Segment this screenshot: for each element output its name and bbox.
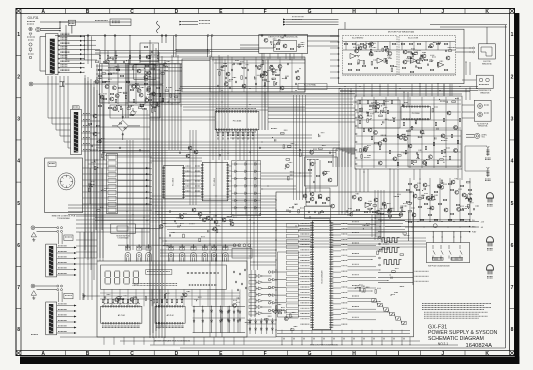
motor sub-box KD-2 REWIND — [343, 36, 398, 76]
connector CN3 hatched core — [74, 112, 78, 153]
syscon bottom pin circles — [283, 338, 284, 339]
motor pcb wires — [343, 41, 456, 43]
svg-text:1: 1 — [17, 32, 20, 38]
DETECTOR PCB box — [259, 35, 308, 54]
power unit sub-box B — [129, 85, 163, 102]
power unit sub-box A — [129, 65, 163, 85]
transformer secondary taps — [58, 35, 84, 37]
OSC OUT row 3 — [378, 281, 413, 283]
power unit outer box — [100, 64, 180, 103]
svg-text:G: G — [308, 351, 312, 357]
junction rings mid band — [169, 211, 171, 213]
servo component field — [452, 101, 456, 103]
servo bus line 2 — [340, 91, 470, 93]
resistor row under U10 — [217, 132, 219, 136]
MODE SW PCB box — [111, 224, 136, 234]
thermal fuse box — [68, 20, 75, 25]
display inner label box — [146, 270, 172, 275]
horizontal bus band y237-247 — [160, 237, 426, 239]
REVERSE PCB box — [476, 75, 493, 88]
svg-text:D: D — [175, 351, 179, 357]
syscon mute cluster — [365, 202, 371, 207]
syscon exit rows extra — [348, 227, 373, 229]
wires remote pcb — [83, 167, 108, 169]
svg-text:E: E — [219, 9, 223, 15]
plunger coil L2 — [486, 167, 489, 177]
syscon left edge pin dots — [275, 199, 276, 200]
servo wires — [356, 99, 461, 101]
meter IC passive rows — [102, 299, 104, 303]
regulator component field — [132, 85, 136, 89]
notes block 1 strong — [422, 303, 491, 305]
clock waveform trace 3 — [384, 260, 402, 265]
long horizontal wires upper — [150, 93, 355, 95]
left entry bundle to servo — [332, 148, 334, 167]
REMOTE CONTROL PCB box — [45, 158, 83, 213]
wires between U11 U12 — [184, 167, 203, 169]
transistor near SW PCB — [433, 224, 437, 228]
svg-text:DETECTOR PCB T2030905C5A: DETECTOR PCB T2030905C5A — [268, 36, 298, 39]
wires into SW PCB — [378, 219, 470, 221]
right margin long vertical — [505, 25, 507, 348]
wires detector — [240, 44, 259, 46]
svg-text:1640824A: 1640824A — [466, 343, 493, 349]
corner registration box bottom-left — [16, 351, 21, 356]
ground symbol A — [31, 232, 36, 237]
meter IC2 — [155, 306, 185, 323]
left column verticals to meter — [79, 232, 81, 300]
motor feed lines — [286, 19, 339, 21]
wire power feed — [66, 59, 97, 61]
matrix frame — [232, 161, 261, 216]
wires input B — [35, 285, 57, 287]
wire run meter to syscon — [247, 319, 276, 321]
rail passives — [406, 189, 410, 191]
motor connector dots — [473, 47, 475, 49]
link detector to servo — [344, 22, 346, 29]
long horizontal wires lower — [160, 249, 276, 251]
svg-text:AT-7LM: AT-7LM — [167, 314, 174, 317]
syscon reg cluster — [303, 194, 307, 198]
svg-text:4: 4 — [17, 159, 20, 165]
CN3 vertical collectors — [99, 95, 101, 160]
display counter box — [101, 265, 227, 289]
motor pcb resistors — [344, 43, 348, 45]
svg-text:J: J — [441, 9, 444, 15]
left column field — [89, 183, 90, 185]
syscon IC pin labels left — [301, 222, 310, 224]
motor pcb output wires — [456, 47, 473, 49]
OSC OUT row 1 — [378, 272, 413, 274]
syscon osc box — [304, 206, 330, 218]
meter IC bottom garbles — [102, 327, 140, 329]
cluster caps left of syscon — [233, 271, 234, 273]
CN3 nested feed wires — [47, 76, 49, 118]
mid sub-box 2 — [306, 188, 330, 206]
transistor Q17 — [151, 92, 155, 96]
bridge rectifier D1-D4 — [117, 120, 128, 131]
action solenoid symbols — [478, 104, 483, 109]
vertical trunk x375-385 — [374, 190, 376, 240]
grid letters bottom — [41, 351, 489, 357]
svg-text:C: C — [130, 351, 134, 357]
meter IC pin garbles — [102, 325, 140, 327]
fuse box A — [64, 235, 73, 241]
KD-1 NORMAL bus — [180, 86, 478, 88]
switch strip cells — [108, 155, 116, 159]
svg-text:TC 4051: TC 4051 — [173, 177, 175, 186]
detector resistors — [276, 43, 280, 45]
mid-right field — [275, 139, 276, 141]
CN3 pin rows — [82, 114, 101, 116]
syscon left resistor column — [286, 224, 298, 227]
servo box left pin circles — [356, 101, 358, 103]
svg-text:8: 8 — [511, 327, 514, 333]
syscon bottom wires — [277, 330, 410, 332]
regulator passives scatter — [98, 69, 102, 71]
junction circles main bus — [87, 35, 89, 37]
svg-text:7: 7 — [17, 285, 20, 291]
svg-text:KD-1 NORMAL: KD-1 NORMAL — [304, 84, 316, 87]
svg-text:J: J — [441, 351, 444, 357]
transistor Q15 — [146, 88, 150, 92]
mesh junction dots — [149, 93, 150, 94]
meter interior field — [194, 298, 198, 300]
transformer tap labels enhance — [61, 32, 70, 34]
corner registration box bottom-right — [510, 351, 515, 356]
svg-text:+5V: +5V — [481, 222, 485, 224]
svg-text:GX-F31: GX-F31 — [28, 16, 39, 20]
svg-text:IC1 LC6554H: IC1 LC6554H — [322, 270, 324, 284]
svg-text:SW PCB T2030905G2B: SW PCB T2030905G2B — [428, 265, 450, 267]
svg-text:SOL: SOL — [482, 137, 486, 139]
+B rail — [405, 221, 479, 223]
wires CN3 to center — [100, 114, 150, 116]
svg-text:SCHEMATIC DIAGRAM: SCHEMATIC DIAGRAM — [428, 336, 484, 342]
svg-text:4: 4 — [511, 159, 514, 165]
svg-text:A: A — [41, 9, 45, 15]
CN3 right passives — [88, 123, 92, 125]
syscon key diodes — [268, 271, 270, 273]
mid-left field — [169, 234, 170, 236]
svg-text:I: I — [398, 9, 400, 15]
mid-right bus bundle — [268, 107, 355, 109]
regulator wires — [96, 65, 160, 67]
svg-text:KD-2 LOOSE: KD-2 LOOSE — [408, 38, 419, 40]
U11 U12 side garbles — [186, 165, 191, 167]
svg-text:7: 7 — [511, 285, 514, 291]
svg-text:H: H — [352, 351, 356, 357]
remote rows to spine — [107, 167, 150, 169]
wire run bottom long 2 — [97, 348, 414, 350]
motor-servo connector drops extra — [355, 84, 357, 96]
vertical trunk x210-230 — [209, 55, 211, 160]
junction dots AC input — [59, 21, 60, 22]
notes block 2 strong — [424, 311, 488, 313]
svg-text:3: 3 — [17, 117, 20, 123]
transistor package drawing Q31 — [487, 237, 494, 247]
SYSCON PCB box — [276, 192, 414, 337]
servo sub-box 1 — [358, 100, 400, 128]
wires bridge rectifier — [122, 108, 124, 119]
remote DIN connector J2 — [58, 173, 75, 190]
top bus wires detector to motor — [155, 34, 339, 36]
wire AC neutral — [40, 30, 60, 32]
connector circles row — [233, 244, 236, 247]
meter wires internal — [100, 292, 240, 294]
motor pcb transistors — [358, 46, 362, 50]
transistor package drawing Q32 — [487, 265, 494, 275]
meter second diode grid — [221, 311, 223, 313]
vertical trunk x247-258 — [246, 130, 248, 270]
reference label stubs — [182, 21, 198, 23]
IC U12 vertical DIP — [164, 165, 184, 199]
transistor package drawing Q30 — [487, 193, 494, 203]
wire run bottom long — [60, 336, 276, 338]
fuse box B — [64, 293, 73, 299]
power unit verticals — [125, 63, 127, 118]
svg-text:T2030905A50: T2030905A50 — [57, 217, 70, 220]
KD-1 label box — [298, 84, 327, 90]
syscon box bottom drops — [281, 337, 283, 345]
connector bar B — [46, 302, 57, 335]
bottom middle field — [290, 329, 294, 331]
wires input A vertical — [57, 233, 59, 244]
capacitor C11 — [123, 61, 124, 63]
upper-center component field — [255, 77, 256, 79]
meter IC1 — [101, 306, 142, 323]
U10 pin garbles — [216, 108, 256, 110]
svg-text:B: B — [86, 9, 90, 15]
detector field — [298, 44, 300, 48]
push button bus — [118, 244, 240, 246]
left trunk extension — [84, 78, 86, 258]
syscon top field — [346, 210, 347, 212]
transistor Q10 — [137, 69, 141, 73]
long pair y205 to left — [68, 204, 150, 206]
motor sub-box KD-2 LOOSE — [399, 36, 456, 76]
staircase icon chain — [372, 299, 376, 303]
svg-text:WR40574B: WR40574B — [480, 92, 490, 94]
rail junction dots — [417, 221, 418, 222]
rail wires vertical — [409, 178, 411, 222]
osc sub-box top-center — [140, 43, 159, 61]
diode rows bus — [250, 270, 252, 317]
svg-text:WR40573D: WR40573D — [482, 64, 492, 66]
capacitor C10 — [103, 61, 104, 63]
CN3 label box — [72, 106, 79, 109]
transistor Q11 — [147, 71, 151, 75]
svg-text:MOTOR PCB WR40570A4: MOTOR PCB WR40570A4 — [388, 31, 415, 34]
AC outlet connector — [29, 82, 33, 86]
display LED dashes row2 — [189, 284, 217, 286]
syscon IC outer pin stubs — [310, 222, 312, 329]
FG PCB inner — [481, 47, 492, 56]
svg-text:2: 2 — [511, 74, 514, 80]
connector bar A — [46, 244, 57, 277]
push button switch row — [125, 253, 130, 262]
IC U11 vertical DIP — [202, 163, 228, 201]
vertical trunk x339-352 — [338, 88, 340, 215]
regulator to center links — [108, 56, 210, 58]
transistor Q14 — [135, 85, 139, 89]
connector CN3 outline — [71, 110, 82, 155]
op-amp U5A — [350, 53, 356, 58]
clock waveform trace 1 — [382, 238, 400, 243]
op-amp U5B — [377, 58, 383, 63]
wire outlet to regulator — [65, 83, 118, 85]
SW PCB switches — [433, 245, 435, 259]
wires input B vertical — [57, 292, 59, 303]
big box upper center — [210, 57, 305, 92]
mid-left transistor cluster — [188, 146, 192, 150]
servo transistors — [447, 111, 451, 115]
svg-text:NO.2-1: NO.2-1 — [438, 342, 449, 346]
mute amp transistors — [310, 162, 314, 166]
wire AC hot — [40, 27, 60, 29]
rail transistors — [408, 183, 412, 185]
input jack B — [31, 284, 35, 288]
transistor Q20 — [93, 114, 97, 118]
SW PCB hatched label 1 — [432, 257, 443, 260]
regulator main box — [182, 59, 305, 92]
motor pcb field left — [358, 60, 360, 64]
twisted pair icon — [157, 21, 160, 33]
U11 right wires — [228, 165, 232, 167]
svg-text:3: 3 — [511, 117, 514, 123]
long horizontal wires mid band — [95, 211, 405, 213]
svg-text:+B: +B — [481, 227, 484, 229]
servo block box — [355, 96, 462, 169]
regulator sub-box A — [134, 65, 156, 80]
left column hline stubs — [76, 239, 97, 241]
wire mode sw — [135, 228, 160, 230]
syscon microcontroller IC8 — [313, 220, 331, 329]
svg-text:H: H — [352, 9, 356, 15]
mid band left extension — [68, 211, 95, 213]
link regulator to syscon — [264, 92, 266, 130]
waveform pin dots — [379, 236, 381, 238]
grid letters top — [41, 9, 489, 15]
switch strip bus — [149, 60, 151, 335]
meter diode grid — [193, 306, 195, 332]
svg-text:5: 5 — [511, 201, 514, 207]
horizontal bus band y148-156 — [96, 147, 340, 149]
input A pin circles — [57, 227, 59, 229]
svg-text:B: B — [86, 351, 90, 357]
motor pcb field right — [407, 60, 414, 62]
detector inner box — [274, 40, 297, 51]
wire AC outlet — [33, 83, 59, 85]
SW PCB hatched label 2 — [451, 257, 463, 260]
ACTION PCB box — [474, 100, 491, 121]
corner registration box top-left — [16, 9, 21, 14]
vertical bus right of regulator — [168, 63, 170, 150]
svg-text:PU 5800: PU 5800 — [412, 113, 421, 115]
wire run left to syscon top — [150, 204, 276, 206]
transformer output collectors — [84, 36, 86, 60]
lower power box — [110, 105, 160, 118]
syscon right pin labels — [332, 223, 341, 225]
horizontal bus band y211-232 — [155, 211, 405, 213]
wires staircase chain — [376, 301, 379, 306]
svg-text:G: G — [308, 9, 312, 15]
op-amp U6A — [411, 58, 417, 63]
ground symbol B — [31, 291, 36, 296]
power rail field — [431, 196, 435, 200]
connector pair CN1 — [60, 82, 65, 87]
svg-text:AT-7LM: AT-7LM — [118, 314, 125, 317]
svg-text:5: 5 — [17, 201, 20, 207]
FG PCB box — [479, 44, 496, 59]
wires upper center — [219, 57, 221, 92]
wire waveform column — [408, 212, 410, 241]
display bottom tiny text — [133, 283, 178, 285]
servo sub-box field — [383, 103, 384, 105]
mid sub-box mute amp — [305, 157, 338, 186]
vertical trunk x293-305 — [293, 95, 295, 200]
input B pin circles — [57, 285, 59, 287]
transistor Q12 — [105, 85, 109, 89]
svg-text:F: F — [264, 9, 267, 15]
wires right column — [462, 79, 476, 81]
wires left trunk to remote — [85, 159, 107, 161]
+5V rail — [405, 226, 479, 228]
diode arrow rows — [249, 274, 256, 278]
remote pcb small box — [48, 162, 56, 167]
long vertical wires — [96, 104, 98, 261]
op-amp U6B — [438, 62, 444, 67]
scanner black bar right edge — [515, 13, 520, 364]
more meter leds — [249, 318, 251, 334]
syscon right exit wires — [348, 223, 377, 225]
power unit text block — [109, 67, 120, 69]
bus drop verticals — [161, 36, 163, 44]
upper center components — [223, 65, 227, 67]
mute amp passives — [308, 169, 312, 171]
corner registration box top-right — [510, 9, 515, 14]
central spine extension — [149, 40, 151, 338]
svg-text:2: 2 — [17, 74, 20, 80]
stock mark — [31, 334, 38, 336]
MOTOR PCB box — [339, 29, 465, 83]
junction rings band2 — [119, 147, 121, 149]
grid numbers left and right — [17, 32, 513, 333]
svg-text:8: 8 — [17, 327, 20, 333]
syscon right exit wire labels — [352, 221, 359, 223]
AC plug pictogram stack — [27, 21, 35, 23]
wire to thermal fuse — [59, 22, 61, 28]
wires input A — [35, 227, 57, 229]
diode matrix — [235, 163, 237, 166]
svg-text:F: F — [264, 351, 267, 357]
clock waveform trace 2 — [382, 248, 400, 253]
svg-text:K: K — [485, 351, 489, 357]
junction dot field 1 — [215, 147, 216, 148]
svg-text:A: A — [41, 351, 45, 357]
wires detector box down — [263, 53, 265, 59]
connector rows to spine — [76, 215, 150, 217]
SW PCB box — [426, 243, 469, 263]
assorted junction dots round4 — [161, 35, 162, 36]
transistor Q13 — [112, 86, 116, 90]
OSC OUT row 2 — [378, 277, 413, 279]
7-segment digits — [105, 271, 110, 284]
mains bus line AC — [40, 21, 131, 23]
servo long bus — [182, 88, 478, 90]
junction dots regulator bus — [168, 100, 169, 101]
relay box K1 — [110, 19, 131, 26]
